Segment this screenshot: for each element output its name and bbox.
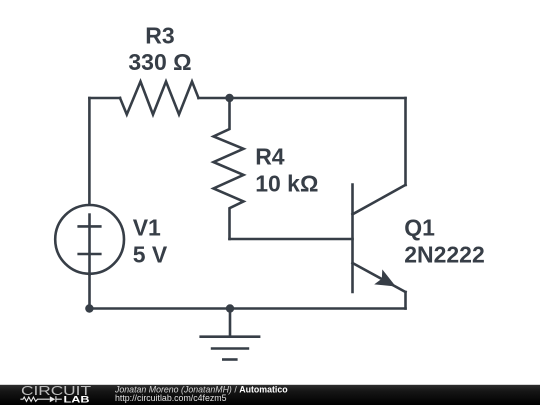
ground (201, 309, 259, 360)
svg-text:LAB: LAB (64, 394, 90, 405)
logo resistor zigzag (20, 397, 49, 401)
wire bottom rail (89, 307, 405, 310)
transistor Q1 (353, 185, 406, 293)
wire base segment R4 to Q1 (230, 238, 353, 241)
wire emitter rail (404, 292, 407, 309)
svg-text:10 kΩ: 10 kΩ (255, 170, 318, 196)
svg-text:Q1: Q1 (404, 214, 435, 240)
svg-text:2N2222: 2N2222 (404, 241, 485, 267)
svg-text:R3: R3 (145, 22, 174, 48)
svg-text:5 V: 5 V (133, 241, 168, 267)
svg-text:http://circuitlab.com/c4fezm5: http://circuitlab.com/c4fezm5 (115, 393, 227, 403)
svg-text:330 Ω: 330 Ω (128, 49, 191, 75)
junction node R3/R4/Q1-collector net (225, 94, 233, 102)
junction node ground / bottom rail (226, 304, 234, 312)
wire V1 minus lead (88, 274, 91, 308)
resistor R3 (120, 82, 199, 115)
junction node V1 minus / bottom rail (85, 304, 93, 312)
voltage source V1 (55, 205, 124, 274)
wire left rail (V1 plus to R3 left) (88, 98, 91, 205)
wire right collector rail (404, 98, 407, 185)
footer bar (0, 385, 540, 405)
wire top segment R3 to collector rail (199, 97, 406, 100)
svg-text:V1: V1 (133, 214, 161, 240)
svg-text:R4: R4 (255, 144, 285, 170)
resistor R4 (214, 98, 244, 239)
wire top-left segment to R3 (89, 97, 120, 100)
logo diode (50, 396, 62, 402)
